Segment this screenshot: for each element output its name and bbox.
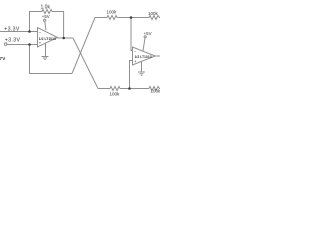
wire bottom row middle [120, 88, 149, 90]
svg-text:100k: 100k [151, 89, 161, 94]
wire top row left [95, 17, 107, 19]
resistor R5 100k bottom right [149, 87, 160, 91]
wire input bottom +3.3V [7, 44, 38, 46]
wire node N2 up to U2 non-inverting input [130, 61, 133, 89]
junction node A feedback/top input [28, 30, 31, 33]
wire branch down from bottom input [30, 45, 73, 74]
svg-text:+3.3V: +3.3V [5, 37, 21, 43]
junction node C U1 output [62, 37, 65, 40]
wire +5V to U2 [143, 38, 145, 51]
wire node N1 down to U2 inverting input [131, 18, 133, 51]
junction node N2 [128, 87, 131, 90]
svg-text:100k: 100k [110, 92, 121, 97]
wire U2 output [155, 55, 160, 57]
terminal +5V U2 [144, 36, 146, 38]
ground U1 [42, 43, 49, 60]
junction node B bottom input branch [28, 43, 31, 46]
svg-text:+5V: +5V [144, 31, 152, 36]
svg-text:+3.3V: +3.3V [4, 26, 20, 32]
resistor R1 1.0k [42, 10, 52, 14]
op-amp U1 [38, 28, 58, 48]
wire feedback loop U1 left/top [30, 12, 43, 32]
wire bottom row left [98, 88, 110, 90]
svg-text:1/2 LT1013: 1/2 LT1013 [39, 37, 56, 41]
svg-text:100k: 100k [148, 11, 159, 16]
resistor R4 100k bottom [110, 87, 120, 91]
svg-text:+5V: +5V [42, 14, 50, 19]
terminal +5V U1 [44, 19, 46, 21]
wire diagonal down to bottom row [73, 38, 98, 89]
wire diagonal up to top row [72, 18, 95, 74]
wire top row middle [117, 17, 149, 19]
svg-text:100k: 100k [107, 10, 118, 15]
wire input top +3.3V [0, 31, 38, 33]
wire +5V to U1 [45, 21, 46, 30]
resistor R3 100k top right [149, 16, 160, 20]
resistor R2 100k top [107, 16, 117, 20]
wire U1 output [58, 37, 74, 39]
junction node N1 [130, 16, 133, 19]
terminal +3.3V bottom [4, 43, 7, 46]
svg-text:1.0k: 1.0k [41, 4, 51, 10]
wire feedback loop U1 right [52, 12, 64, 39]
op-amp U2 [133, 47, 156, 65]
svg-text:7V: 7V [0, 56, 6, 61]
svg-text:1/2 LT1013: 1/2 LT1013 [135, 55, 152, 59]
ground U2 [138, 61, 145, 75]
